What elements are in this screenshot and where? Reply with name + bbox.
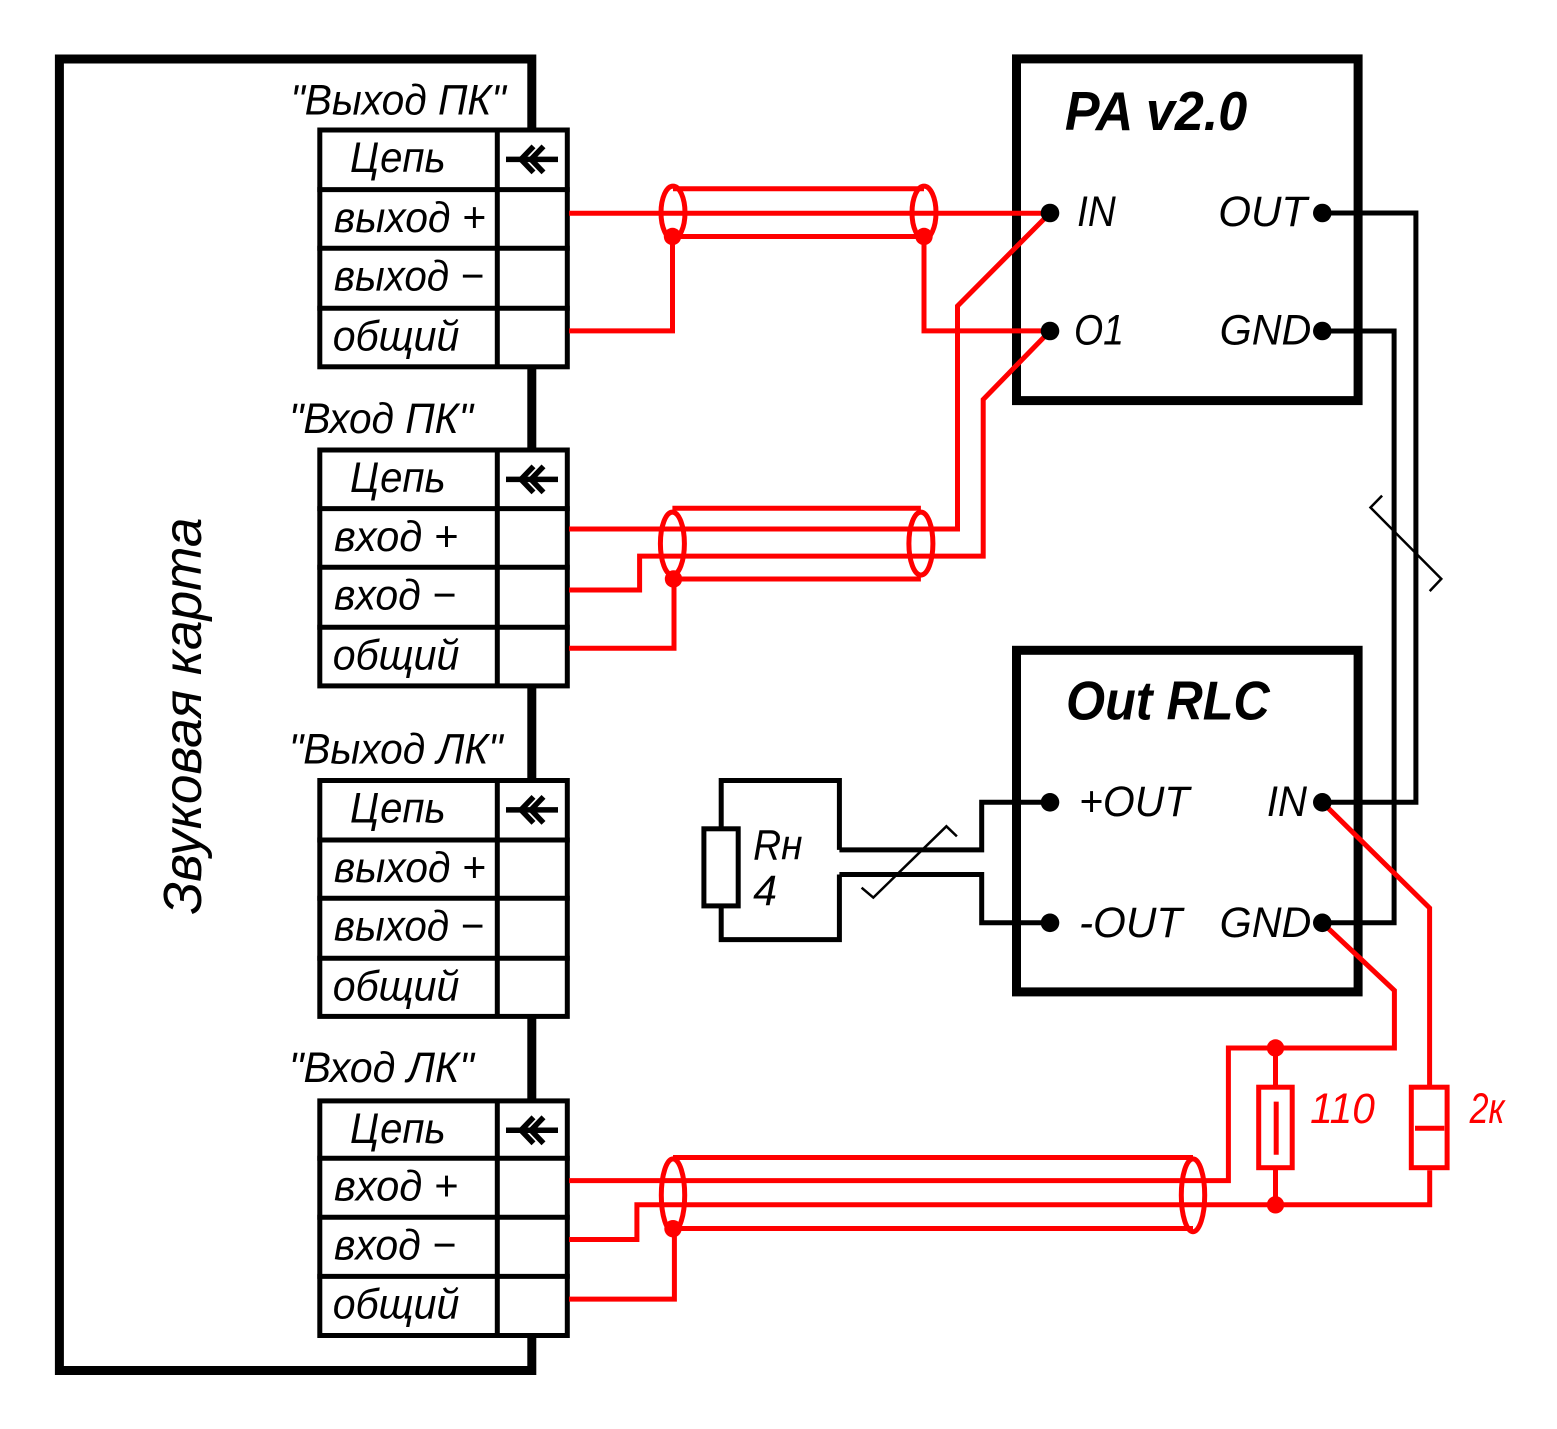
svg-text:Out RLC: Out RLC xyxy=(1066,670,1270,731)
svg-text:общий: общий xyxy=(333,632,460,680)
svg-text:Цепь: Цепь xyxy=(350,134,446,182)
svg-text:общий: общий xyxy=(333,1281,460,1329)
svg-text:"Выход ЛК": "Выход ЛК" xyxy=(289,725,504,773)
svg-text:Цепь: Цепь xyxy=(350,1105,446,1153)
svg-text:общий: общий xyxy=(333,312,460,360)
svg-text:IN: IN xyxy=(1267,778,1308,826)
svg-text:выход −: выход − xyxy=(334,902,484,950)
svg-text:Цепь: Цепь xyxy=(350,454,446,502)
svg-text:110: 110 xyxy=(1310,1085,1375,1133)
svg-text:"Вход ЛК": "Вход ЛК" xyxy=(289,1044,476,1092)
svg-text:-OUT: -OUT xyxy=(1079,899,1185,947)
svg-text:вход −: вход − xyxy=(334,1222,456,1270)
svg-text:"Выход ПК": "Выход ПК" xyxy=(290,77,507,125)
svg-text:выход +: выход + xyxy=(334,844,486,892)
svg-text:"Вход ПК": "Вход ПК" xyxy=(289,395,475,443)
svg-text:выход −: выход − xyxy=(334,252,484,300)
svg-text:GND: GND xyxy=(1220,899,1312,947)
svg-text:O1: O1 xyxy=(1074,307,1124,355)
svg-text:OUT: OUT xyxy=(1218,188,1310,236)
svg-text:2к: 2к xyxy=(1469,1085,1506,1133)
svg-text:Rн: Rн xyxy=(753,822,802,870)
svg-text:IN: IN xyxy=(1077,188,1116,236)
svg-text:4: 4 xyxy=(753,867,777,915)
svg-text:GND: GND xyxy=(1220,307,1312,355)
svg-text:общий: общий xyxy=(333,962,460,1010)
svg-text:вход +: вход + xyxy=(334,1162,458,1210)
svg-text:выход +: выход + xyxy=(334,194,486,242)
svg-text:вход +: вход + xyxy=(334,513,458,561)
svg-text:вход −: вход − xyxy=(334,572,456,620)
svg-text:PA v2.0: PA v2.0 xyxy=(1065,81,1247,142)
svg-text:+OUT: +OUT xyxy=(1079,778,1192,826)
svg-text:Цепь: Цепь xyxy=(350,785,446,833)
svg-text:Звуковая карта: Звуковая карта xyxy=(153,518,213,915)
